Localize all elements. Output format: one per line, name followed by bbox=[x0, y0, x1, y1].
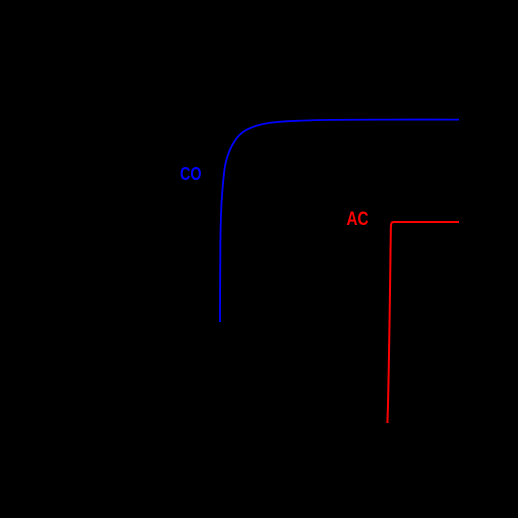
curve CO (blue breakthrough curve) bbox=[220, 120, 459, 322]
svg-text:AC: AC bbox=[347, 209, 369, 230]
svg-text:CO: CO bbox=[180, 164, 202, 184]
curve AC (red breakthrough curve) bbox=[387, 222, 459, 423]
